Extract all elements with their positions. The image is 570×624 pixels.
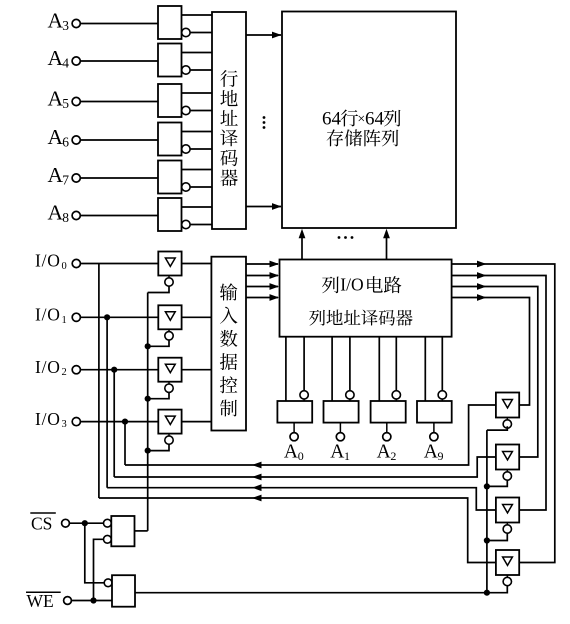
input buffer I/O3	[158, 410, 181, 434]
svg-text:3: 3	[62, 18, 69, 33]
junction dot enable rail I/O3	[145, 448, 151, 454]
wire output buffer 4 bubble to enable rail	[487, 586, 507, 593]
svg-text:9: 9	[438, 449, 444, 463]
enable bubble output buffer 2	[506, 470, 508, 472]
svg-text:3: 3	[62, 419, 67, 430]
wire input control to column IO circuit line 0	[246, 263, 278, 265]
output buffer 2	[496, 445, 519, 470]
wire A3 to buffer	[80, 23, 158, 25]
junction dot enable rail I/O1	[145, 343, 151, 349]
wire bubble I/O0 to enable rail	[148, 286, 169, 292]
column address buffer A1	[324, 401, 359, 423]
vertical ellipsis between decoder and array	[263, 116, 266, 129]
wire I/O0 to input buffer	[80, 263, 158, 265]
bubble A1 buffer complement output	[349, 337, 351, 391]
svg-text:A: A	[424, 441, 438, 462]
wire CS to gate 1	[69, 522, 103, 524]
svg-text:A: A	[48, 46, 64, 70]
wire column IO output 1	[452, 287, 538, 458]
address buffer A5	[158, 84, 182, 117]
terminal A1	[339, 423, 341, 433]
svg-text:A: A	[377, 441, 391, 462]
terminal WE	[64, 597, 72, 605]
column IO circuit / column address decoder box	[280, 260, 452, 337]
wire output buffer 4 to I/O line	[99, 498, 496, 563]
wire input control to column IO circuit line 3	[246, 297, 278, 299]
input data control box	[211, 257, 246, 431]
memory array box 64x64	[282, 12, 456, 229]
svg-text:I/O: I/O	[35, 357, 61, 377]
column address buffer A0	[277, 401, 312, 423]
label 列I/O电路	[322, 274, 401, 294]
junction dot I/O2 feedback branch	[111, 367, 117, 373]
svg-text:5: 5	[62, 96, 69, 111]
svg-text:A: A	[48, 163, 64, 187]
wire output buffer 3 bubble to enable rail	[487, 533, 507, 540]
wire WE to gate 2	[71, 600, 112, 602]
wire input control to column IO circuit line 2	[246, 286, 278, 288]
junction dot enable rail I/O2	[145, 396, 151, 402]
wire bubble I/O1 to enable rail	[148, 340, 169, 346]
row address decoder box	[212, 12, 246, 229]
svg-text:A: A	[48, 125, 64, 149]
junction dot WE	[90, 597, 96, 603]
wire A5 true output	[182, 92, 213, 94]
wire A7 true output	[182, 169, 213, 171]
wire WE up to gate 1	[94, 539, 104, 600]
enable bubble output buffer 4	[506, 575, 508, 577]
enable bubble input buffer I/O1	[168, 329, 170, 331]
wire I/O1 feedback vertical	[106, 317, 108, 487]
bubble A6 complement output	[182, 145, 190, 153]
column address buffer A2	[371, 401, 406, 423]
output buffer 1	[496, 393, 519, 418]
bubble A8 complement output	[182, 220, 190, 228]
label 存储阵列	[327, 129, 399, 146]
svg-text:2: 2	[62, 367, 67, 378]
bubble A0 buffer complement output	[303, 337, 305, 391]
wire column IO to array (left, with up arrow)	[301, 236, 303, 260]
wire input buffer I/O0 to control	[182, 263, 212, 265]
terminal A0	[293, 423, 295, 433]
address buffer A4	[158, 44, 182, 77]
svg-text:64: 64	[322, 108, 342, 129]
bubble A3 complement output	[182, 28, 190, 36]
wire A6 true output	[182, 131, 213, 133]
input buffer enable rail	[147, 293, 149, 531]
svg-text:4: 4	[62, 56, 69, 71]
wire A1 buffer true output	[331, 337, 333, 401]
svg-text:A: A	[330, 441, 344, 462]
junction dot enable rail 2	[484, 537, 490, 543]
wire output buffer 1 bubble to enable rail	[487, 426, 507, 430]
input buffer I/O2	[158, 358, 181, 382]
wire decoder to array top arrow	[246, 34, 281, 36]
svg-text:1: 1	[344, 449, 350, 463]
gate 1 (read enable)	[104, 519, 112, 527]
junction dot I/O3 feedback branch	[122, 419, 128, 425]
enable bubble output buffer 1	[506, 418, 508, 420]
output buffer 4	[496, 550, 519, 575]
address buffer A3	[158, 6, 182, 39]
svg-text:2: 2	[390, 449, 396, 463]
enable bubble input buffer I/O0	[168, 276, 170, 278]
junction dot CS	[82, 520, 88, 526]
wire CS down to gate 2	[85, 523, 104, 583]
wire input buffer I/O1 to control	[182, 316, 212, 318]
column address buffer A9	[417, 401, 452, 423]
address buffer A6	[158, 123, 182, 156]
input buffer I/O0	[158, 252, 181, 276]
wire decoder to array bottom arrow	[246, 206, 281, 208]
svg-text:I/O: I/O	[35, 251, 61, 271]
svg-text:A: A	[48, 201, 64, 225]
bubble A5 complement output	[182, 106, 190, 114]
horizontal ellipsis below array	[338, 236, 354, 239]
svg-text:CS: CS	[31, 513, 52, 533]
wire A6 to buffer	[80, 139, 158, 141]
wire input buffer I/O3 to control	[182, 421, 212, 423]
wire A4 complement output	[190, 69, 212, 71]
wire gate 2 output to output buffer enable rail	[135, 592, 487, 594]
svg-text:0: 0	[62, 261, 67, 272]
wire A6 complement output	[190, 148, 212, 150]
wire A7 complement output	[190, 186, 212, 188]
wire column IO output 0	[452, 298, 530, 406]
wire column IO to array (right, with up arrow)	[386, 236, 388, 260]
gate 2 (write enable)	[104, 579, 112, 587]
svg-text:1: 1	[62, 315, 67, 326]
label 行地址译码器 (row address decoder)	[220, 70, 238, 186]
wire output buffer 2 to I/O line	[114, 457, 496, 477]
wire A0 buffer true output	[285, 337, 287, 401]
wire A8 true output	[182, 206, 213, 208]
wire bubble I/O3 to enable rail	[148, 444, 169, 450]
terminal A9	[433, 423, 435, 433]
wire A7 to buffer	[80, 177, 158, 179]
svg-text:A: A	[48, 87, 64, 111]
wire A5 complement output	[190, 110, 212, 112]
label 64行×64列	[322, 108, 401, 129]
junction dot enable rail 1	[484, 483, 490, 489]
label 输入数据控制 (input data control)	[220, 283, 238, 416]
bubble A7 complement output	[182, 183, 190, 191]
svg-text:I/O: I/O	[35, 305, 61, 325]
wire I/O3 feedback vertical	[124, 422, 126, 465]
wire A5 to buffer	[80, 101, 158, 103]
wire A8 to buffer	[80, 215, 158, 217]
wire column IO output 3	[452, 264, 555, 563]
wire gate 1 output to input buffer enable rail	[135, 530, 148, 532]
svg-text:A: A	[48, 9, 64, 33]
wire A3 true output	[182, 14, 213, 16]
terminal A2	[386, 423, 388, 433]
output buffer enable rail	[486, 430, 488, 593]
svg-text:8: 8	[62, 210, 69, 225]
input buffer I/O1	[158, 305, 181, 329]
terminal CS	[62, 519, 70, 527]
enable bubble input buffer I/O2	[168, 382, 170, 384]
svg-text:6: 6	[62, 135, 69, 150]
junction dot enable rail 3	[484, 590, 490, 596]
output buffer 3	[496, 498, 519, 523]
wire bubble I/O2 to enable rail	[148, 392, 169, 398]
enable bubble output buffer 3	[506, 523, 508, 525]
wire I/O1 to input buffer	[80, 316, 158, 318]
wire output buffer 1 to I/O line	[125, 405, 496, 465]
wire I/O2 feedback vertical	[113, 370, 115, 477]
wire A4 to buffer	[80, 60, 158, 62]
svg-text:WE: WE	[27, 591, 54, 611]
wire I/O2 to input buffer	[80, 369, 158, 371]
enable bubble input buffer I/O3	[168, 434, 170, 436]
svg-text:0: 0	[298, 449, 304, 463]
svg-text:A: A	[284, 441, 298, 462]
svg-text:I/O: I/O	[35, 409, 61, 429]
wire A9 buffer true output	[424, 337, 426, 401]
address buffer A7	[158, 161, 182, 194]
svg-text:7: 7	[62, 173, 69, 188]
svg-text:I/O: I/O	[340, 274, 363, 294]
bubble A4 complement output	[182, 66, 190, 74]
wire I/O0 feedback vertical	[98, 264, 100, 499]
bubble A9 buffer complement output	[441, 337, 443, 391]
wire output buffer 2 bubble to enable rail	[487, 480, 507, 486]
wire column IO output 2	[452, 276, 546, 511]
address buffer A8	[158, 198, 182, 231]
junction dot I/O1 feedback branch	[104, 314, 110, 320]
wire A8 complement output	[190, 224, 212, 226]
label 列地址译码器	[309, 310, 413, 326]
wire input control to column IO circuit line 1	[246, 275, 278, 277]
svg-text:64: 64	[365, 108, 385, 129]
wire A2 buffer true output	[378, 337, 380, 401]
wire I/O3 to input buffer	[80, 421, 158, 423]
wire A4 true output	[182, 52, 213, 54]
wire output buffer 3 to I/O line	[107, 488, 496, 510]
bubble A2 buffer complement output	[395, 337, 397, 391]
wire input buffer I/O2 to control	[182, 369, 212, 371]
wire A3 complement output	[190, 32, 212, 34]
